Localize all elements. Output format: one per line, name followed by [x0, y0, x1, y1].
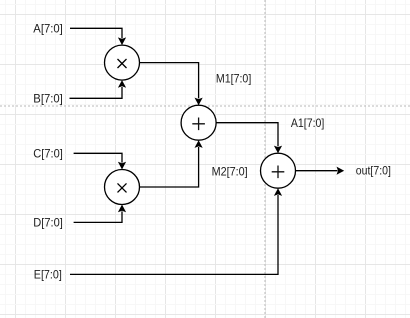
node E[7:0]	[34, 268, 62, 282]
svg-text:D[7:0]: D[7:0]	[33, 216, 63, 230]
wire D to multiplier U3	[74, 205, 127, 223]
multiplier U1	[105, 45, 140, 80]
svg-text:C[7:0]: C[7:0]	[33, 146, 63, 160]
net label out[7:0]	[356, 164, 391, 178]
node A[7:0]	[33, 22, 63, 36]
wire E to adder U4	[70, 188, 282, 274]
svg-text:B[7:0]: B[7:0]	[33, 92, 63, 106]
node D[7:0]	[33, 216, 63, 230]
net label M1[7:0]	[216, 71, 251, 85]
wire U4 output	[295, 167, 344, 175]
svg-text:M1[7:0]: M1[7:0]	[216, 71, 251, 85]
net label A1[7:0]	[291, 116, 324, 130]
adder U2	[181, 105, 216, 140]
wire U3 output M2 to adder U2	[140, 140, 203, 187]
wire A to multiplier U1	[70, 28, 126, 45]
multiplier U3	[105, 170, 140, 205]
svg-text:out[7:0]: out[7:0]	[356, 164, 391, 178]
net label M2[7:0]	[212, 165, 248, 179]
wire U1 output M1 to adder U2	[140, 63, 203, 106]
svg-text:A1[7:0]: A1[7:0]	[291, 116, 324, 130]
wire C to multiplier U3	[74, 153, 127, 169]
node C[7:0]	[33, 146, 63, 160]
adder U4	[261, 153, 296, 188]
svg-text:E[7:0]: E[7:0]	[34, 268, 62, 282]
svg-text:M2[7:0]: M2[7:0]	[212, 165, 248, 179]
wire U2 output A1 to adder U4	[216, 123, 282, 154]
node B[7:0]	[33, 92, 63, 106]
wire B to multiplier U1	[70, 80, 127, 98]
svg-text:A[7:0]: A[7:0]	[33, 22, 63, 36]
